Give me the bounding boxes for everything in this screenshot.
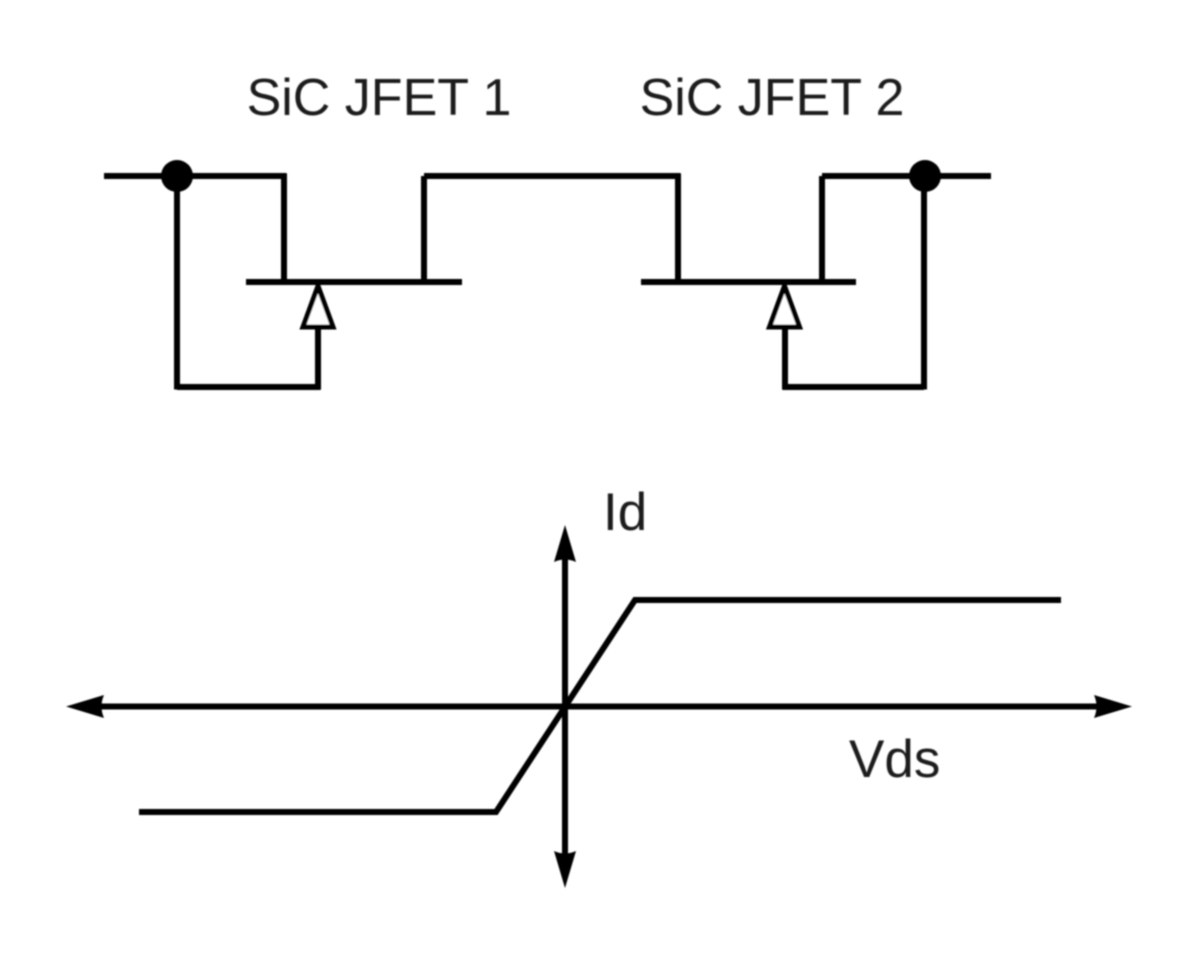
axis: Id (vertical) shaft (562, 556, 568, 857)
axis: Id bottom arrowhead (554, 851, 576, 888)
transistor SiC JFET 2 (drain lead) (819, 176, 825, 282)
transistor SiC JFET 2 (gate arrow) (770, 286, 800, 327)
wire: JFET2 gate-to-source tie (bottom horizontal) (783, 384, 925, 390)
wire: left terminal lead (104, 173, 287, 179)
node A (left terminal junction dot) (161, 160, 193, 192)
wire: JFET2 gate tie vertical up to node B (921, 176, 927, 390)
node B (right terminal junction dot) (909, 160, 941, 192)
svg-text:Vds: Vds (849, 730, 940, 789)
transistor SiC JFET 2 (channel bar) (641, 279, 856, 285)
transistor SiC JFET 1 (gate lead) (315, 329, 321, 390)
wire: right terminal lead (822, 173, 991, 179)
curve: Id-Vds characteristic (139, 600, 1061, 812)
transistor SiC JFET 2 (source lead) (675, 174, 681, 283)
transistor SiC JFET 2 (gate lead) (782, 329, 788, 390)
axis: Vds (horizontal) shaft (98, 704, 1100, 710)
axis: Id top arrowhead (554, 525, 576, 562)
transistor SiC JFET 1 (channel bar) (246, 279, 462, 285)
transistor SiC JFET 1 (source lead) (421, 176, 427, 282)
wire: middle connector between JFET1 source and JFET2 source (424, 173, 681, 179)
transistor SiC JFET 1 (drain lead) (281, 174, 287, 283)
axis: Vds right arrowhead (1094, 695, 1132, 718)
svg-text:Id: Id (603, 483, 647, 542)
wire: JFET1 gate tie vertical up to node A (174, 176, 180, 390)
wire: JFET1 gate-to-source tie (bottom horizontal) (177, 384, 321, 390)
svg-text:SiC JFET 2: SiC JFET 2 (640, 69, 905, 127)
transistor SiC JFET 1 (gate arrow) (303, 286, 333, 327)
axis: Vds left arrowhead (66, 695, 104, 718)
svg-text:SiC JFET 1: SiC JFET 1 (247, 69, 512, 127)
